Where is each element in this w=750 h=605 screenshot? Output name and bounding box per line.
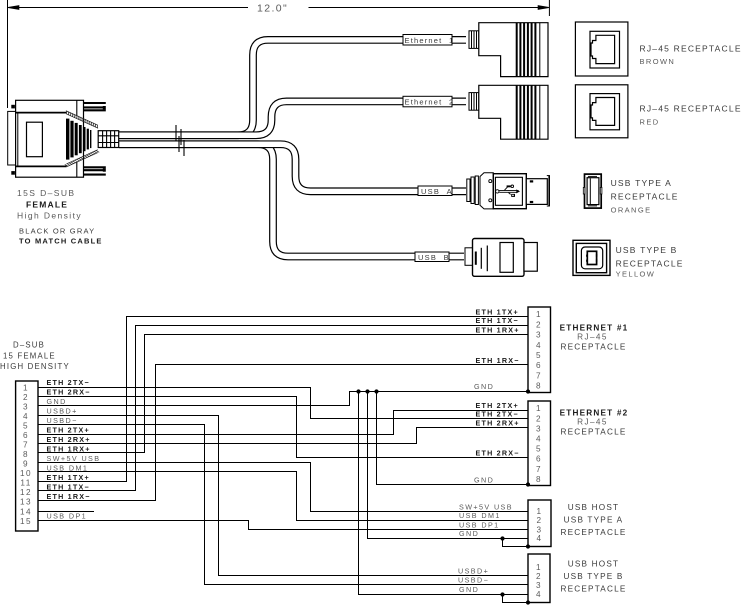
USB type B receptacle outer	[573, 240, 610, 275]
USB B plug neck	[465, 248, 473, 265]
svg-text:8: 8	[536, 475, 542, 484]
svg-text:USBD+: USBD+	[47, 407, 78, 416]
svg-text:1: 1	[23, 383, 29, 392]
svg-text:ETH 1TX−: ETH 1TX−	[476, 316, 519, 325]
svg-text:1: 1	[536, 310, 542, 319]
svg-text:RECEPTACLE: RECEPTACLE	[616, 258, 684, 268]
RJ45 plug 2 body	[479, 85, 548, 139]
svg-text:ETH 2RX−: ETH 2RX−	[476, 449, 520, 458]
svg-text:RECEPTACLE: RECEPTACLE	[561, 528, 627, 537]
svg-text:4: 4	[536, 435, 542, 444]
svg-text:11: 11	[20, 478, 31, 487]
D-SUB shell cap line top	[76, 100, 78, 115]
D-SUB cable clamp ribbed	[98, 131, 119, 148]
svg-text:RJ–45: RJ–45	[577, 333, 608, 342]
svg-text:4: 4	[536, 341, 542, 350]
svg-text:3: 3	[23, 402, 29, 411]
svg-text:ORANGE: ORANGE	[611, 205, 652, 214]
USB type B receptacle inner square	[576, 243, 606, 272]
svg-text:4: 4	[23, 412, 29, 421]
svg-text:Ethernet 2: Ethernet 2	[405, 98, 455, 107]
svg-text:GND: GND	[474, 382, 494, 391]
svg-text:USB HOST: USB HOST	[568, 503, 619, 512]
svg-text:14: 14	[20, 507, 32, 516]
svg-text:1: 1	[537, 507, 543, 516]
Ethernet 2 heatshrink label box	[403, 96, 452, 107]
D-SUB shell inner top line	[16, 112, 67, 114]
net pin2 ETH 2RX-	[38, 397, 528, 458]
svg-text:GND: GND	[459, 529, 479, 538]
svg-text:RJ–45: RJ–45	[577, 418, 608, 427]
svg-text:6: 6	[536, 455, 542, 464]
svg-text:TO MATCH CABLE: TO MATCH CABLE	[19, 237, 103, 246]
svg-text:GND: GND	[474, 476, 494, 485]
USB B plug right cap	[524, 243, 537, 272]
svg-text:RJ–45 RECEPTACLE: RJ–45 RECEPTACLE	[640, 104, 742, 114]
svg-text:D–SUB: D–SUB	[13, 341, 45, 350]
svg-text:ETHERNET #2: ETHERNET #2	[560, 409, 629, 418]
svg-text:7: 7	[23, 440, 29, 449]
svg-text:ETH 1TX+: ETH 1TX+	[476, 307, 519, 316]
junction dots USB A GND	[500, 536, 504, 540]
svg-text:ETH 1TX+: ETH 1TX+	[47, 473, 90, 482]
ETHERNET #2 connector box	[528, 401, 551, 486]
svg-text:RED: RED	[640, 118, 660, 127]
svg-text:ETH 1RX−: ETH 1RX−	[476, 356, 520, 365]
D-SUB jackscrew bottom	[84, 167, 106, 174]
net pin6 ETH 2TX+	[38, 411, 528, 435]
svg-text:GND: GND	[47, 397, 67, 406]
svg-text:HIGH DENSITY: HIGH DENSITY	[0, 362, 70, 371]
USB A plug metal shell	[526, 179, 547, 205]
svg-text:GND: GND	[459, 585, 479, 594]
net pin9 SW+5V USB	[38, 463, 528, 512]
D-SUB cone ribs dark triangle	[68, 119, 91, 160]
D-SUB strain relief hatched cone bottom	[65, 150, 99, 167]
svg-text:RECEPTACLE: RECEPTACLE	[561, 342, 627, 351]
RJ-45 receptacle 1 jack outline	[590, 31, 620, 68]
net pin14 stub	[38, 511, 94, 513]
svg-text:6: 6	[23, 431, 29, 440]
svg-text:5: 5	[23, 421, 29, 430]
svg-text:2: 2	[536, 320, 542, 329]
svg-text:USB A: USB A	[421, 187, 453, 196]
svg-text:7: 7	[536, 465, 542, 474]
svg-text:1: 1	[536, 404, 542, 413]
net pin11 ETH 1TX+	[38, 317, 528, 482]
svg-text:5: 5	[536, 351, 542, 360]
net pin13 ETH 1RX-	[38, 365, 528, 501]
junction dot ETH1 GND	[526, 389, 530, 393]
cable break marks	[176, 125, 184, 156]
svg-text:2: 2	[23, 393, 29, 402]
net pin3 GND trunk	[38, 392, 528, 406]
svg-text:USB DP1: USB DP1	[47, 512, 88, 521]
D-SUB pin numbers	[20, 383, 32, 526]
svg-text:SW+5V USB: SW+5V USB	[47, 454, 101, 463]
RJ45 plug 2 boot	[469, 93, 479, 111]
net pin7 ETH 2RX+	[38, 428, 528, 444]
svg-text:15: 15	[20, 517, 32, 526]
net pin15 USB DP1	[38, 521, 528, 530]
svg-text:USB TYPE B: USB TYPE B	[616, 245, 678, 255]
svg-text:15S D–SUB: 15S D–SUB	[17, 188, 75, 198]
svg-text:8: 8	[23, 450, 29, 459]
svg-text:ETH 2TX+: ETH 2TX+	[47, 426, 90, 435]
net pin10 USB DM1	[38, 472, 528, 521]
ETHERNET #1 connector box	[528, 307, 551, 393]
USB type A receptacle inner	[588, 175, 597, 177]
svg-text:YELLOW: YELLOW	[616, 270, 656, 279]
junction dots USB B GND	[500, 592, 504, 596]
D-SUB window	[27, 122, 43, 157]
net pin5 USBD-	[38, 425, 528, 585]
svg-text:USB DP1: USB DP1	[459, 520, 500, 529]
D-SUB shell outer	[16, 100, 84, 177]
svg-text:2: 2	[537, 516, 543, 525]
D-SUB shell cap line bottom	[76, 162, 78, 177]
svg-text:USB TYPE A: USB TYPE A	[564, 516, 624, 525]
svg-text:ETH 2TX−: ETH 2TX−	[476, 410, 519, 419]
svg-text:ETH 1RX+: ETH 1RX+	[47, 445, 91, 454]
svg-text:13: 13	[20, 497, 32, 506]
svg-text:ETH 2TX−: ETH 2TX−	[47, 378, 90, 387]
svg-text:9: 9	[23, 459, 29, 468]
USB trident logo	[496, 185, 519, 194]
RJ-45 receptacle 1 outer	[575, 22, 628, 76]
svg-text:3: 3	[537, 525, 543, 534]
net GND USB A shell stub	[503, 539, 529, 547]
USB B connector box	[528, 554, 550, 603]
USB B plug grip ridges	[475, 252, 477, 265]
svg-text:5: 5	[536, 445, 542, 454]
svg-text:15 FEMALE: 15 FEMALE	[3, 352, 56, 361]
D-SUB 15 connector box	[16, 381, 38, 531]
wire cable branch Ethernet 2	[119, 101, 467, 135]
svg-text:12: 12	[20, 488, 32, 497]
svg-text:ETHERNET #1: ETHERNET #1	[560, 324, 629, 333]
USB A plug body square	[493, 174, 526, 209]
USB A plug boot ribs	[467, 176, 479, 205]
USB A plug overmold	[480, 173, 493, 209]
svg-text:2: 2	[536, 414, 542, 423]
D-SUB jackscrew top	[84, 103, 106, 110]
svg-text:SW+5V USB: SW+5V USB	[459, 502, 513, 511]
svg-text:USB DM1: USB DM1	[47, 464, 89, 473]
svg-text:USB DM1: USB DM1	[459, 511, 501, 520]
RJ45 plug 1 boot	[469, 31, 479, 49]
RJ-45 receptacle 2 outer	[575, 85, 628, 138]
RJ45 plug 1 body	[479, 23, 548, 77]
USB A plug tip	[548, 175, 550, 206]
svg-text:7: 7	[536, 371, 542, 380]
svg-text:1: 1	[536, 563, 542, 572]
USB type B receptacle rounded socket	[581, 247, 602, 269]
wire cable branch USB B	[119, 144, 465, 256]
dimension line 12.0 inch	[8, 6, 549, 10]
svg-text:RECEPTACLE: RECEPTACLE	[561, 585, 627, 594]
wire cable branch USB A	[119, 144, 467, 191]
D-SUB flange screw bottom	[11, 171, 15, 175]
svg-text:3: 3	[536, 581, 542, 590]
svg-text:RJ–45 RECEPTACLE: RJ–45 RECEPTACLE	[640, 44, 742, 54]
net pin8 ETH 1RX+	[38, 335, 528, 453]
USB B heatshrink label box	[415, 252, 449, 262]
svg-text:Ethernet 1: Ethernet 1	[405, 36, 455, 45]
net GND branch to USB A	[368, 392, 529, 539]
D-SUB strain relief hatched cone top	[66, 111, 98, 129]
Ethernet 1 heatshrink label box	[403, 35, 452, 46]
D-SUB shell inner bottom line	[16, 165, 67, 167]
wire cable branch Ethernet 1	[119, 40, 467, 135]
svg-text:High Density: High Density	[17, 211, 82, 221]
dimension extension line left	[7, 0, 9, 108]
net pin4 USBD+	[38, 416, 528, 576]
junction dot ETH2 GND	[526, 482, 530, 486]
svg-text:USBD−: USBD−	[458, 576, 489, 585]
RJ45 plug 2 contact stripes	[517, 85, 536, 139]
svg-text:ETH 1TX−: ETH 1TX−	[47, 483, 90, 492]
net pin1 ETH 2TX-	[38, 388, 528, 419]
svg-text:RECEPTACLE: RECEPTACLE	[561, 427, 627, 436]
svg-text:RECEPTACLE: RECEPTACLE	[611, 191, 679, 201]
svg-text:USB HOST: USB HOST	[568, 560, 619, 569]
USB B plug body	[473, 239, 525, 277]
USB A connector box	[528, 500, 551, 547]
net GND branch to ETH2	[377, 392, 529, 485]
svg-text:4: 4	[536, 590, 542, 599]
svg-text:BROWN: BROWN	[640, 57, 676, 66]
D-SUB mating flange	[8, 111, 16, 165]
USB A heatshrink label box	[418, 186, 452, 196]
junction dots GND bus	[356, 389, 360, 393]
USB type A receptacle outer	[585, 174, 602, 208]
svg-text:ETH 1RX+: ETH 1RX+	[476, 325, 520, 334]
svg-text:6: 6	[536, 361, 542, 370]
svg-text:10: 10	[20, 469, 32, 478]
svg-text:3: 3	[536, 331, 542, 340]
net GND branch to USB B	[359, 392, 529, 595]
svg-text:BLACK OR GRAY: BLACK OR GRAY	[19, 227, 95, 236]
svg-text:USB B: USB B	[418, 253, 450, 262]
D-SUB shell inner left line	[17, 113, 19, 167]
svg-text:ETH 2RX+: ETH 2RX+	[476, 419, 520, 428]
D-SUB flange screw top	[11, 105, 15, 109]
svg-text:ETH 2RX−: ETH 2RX−	[47, 388, 91, 397]
net pin12 ETH 1TX-	[38, 326, 528, 491]
dimension extension line right	[548, 0, 550, 16]
USB B plug inner rect	[500, 243, 513, 273]
RJ-45 receptacle 2 jack opening	[591, 98, 615, 126]
svg-text:USBD−: USBD−	[47, 416, 78, 425]
svg-text:USBD+: USBD+	[458, 566, 489, 575]
svg-text:4: 4	[537, 534, 543, 543]
svg-text:3: 3	[536, 424, 542, 433]
svg-text:ETH 1RX−: ETH 1RX−	[47, 492, 91, 501]
svg-text:8: 8	[536, 382, 542, 391]
svg-text:2: 2	[536, 572, 542, 581]
svg-text:ETH 2RX+: ETH 2RX+	[47, 435, 91, 444]
svg-text:USB TYPE B: USB TYPE B	[563, 572, 623, 581]
RJ-45 receptacle 1 jack opening	[591, 35, 615, 63]
RJ-45 receptacle 2 jack outline	[590, 94, 620, 130]
svg-text:FEMALE: FEMALE	[26, 200, 68, 210]
USB type B receptacle center 0 shape	[587, 251, 596, 264]
USB type A receptacle side tabs	[583, 187, 585, 194]
svg-text:12.0": 12.0"	[257, 3, 288, 15]
svg-text:USB TYPE A: USB TYPE A	[611, 178, 672, 188]
net GND USB B shell stub	[503, 595, 529, 603]
RJ45 plug 1 contact stripes	[517, 23, 536, 77]
